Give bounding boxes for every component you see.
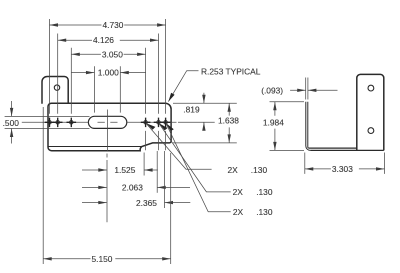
dimension 1.638 (173, 103, 237, 143)
side view end plate (357, 74, 384, 150)
leader 2X .130 (second) (159, 124, 231, 192)
dimension 3.050 (71, 48, 145, 150)
svg-text:.819: .819 (183, 105, 200, 115)
tab (rear flange seen behind web) (42, 77, 68, 104)
svg-text:.130: .130 (256, 207, 273, 217)
svg-text:.130: .130 (251, 165, 268, 175)
svg-text:4.730: 4.730 (103, 20, 124, 30)
svg-text:2X: 2X (228, 165, 239, 175)
dimension .819 (173, 93, 237, 130)
tab hole (54, 85, 59, 90)
plate hole bottom (368, 128, 374, 134)
svg-text:.130: .130 (256, 187, 273, 197)
slot (obround) (88, 116, 126, 128)
side view bottom flange (309, 148, 384, 150)
svg-text:2.365: 2.365 (136, 198, 157, 208)
dimension 2.063 (82, 151, 190, 193)
bend tangent line (front view bottom) (48, 146, 141, 148)
svg-text:R.253 TYPICAL: R.253 TYPICAL (201, 66, 261, 76)
hole center cross marks (45, 118, 171, 128)
svg-text:3.303: 3.303 (332, 164, 353, 174)
front view outline (web) (48, 103, 171, 151)
small hole right 1 (144, 121, 148, 125)
leader 2X .130 (first) (146, 124, 211, 170)
svg-text:1.000: 1.000 (98, 68, 119, 78)
side view web strip (306, 102, 311, 151)
svg-text:(.093): (.093) (261, 86, 283, 96)
svg-text:1.638: 1.638 (218, 115, 239, 125)
dimension 4.730 (50, 19, 166, 150)
dimension 5.150 (43, 107, 171, 264)
svg-text:2X: 2X (233, 187, 244, 197)
small hole right 2 (157, 121, 161, 125)
small hole right 3 (164, 121, 168, 125)
dimension 1.000 (72, 66, 146, 112)
svg-text:2X: 2X (233, 207, 244, 217)
dimension 2.365 (82, 151, 190, 208)
plate hole top (368, 85, 374, 91)
dimension 3.303 (305, 153, 385, 174)
leader 2X .130 (third) (166, 124, 231, 212)
horizontal centerline through holes (22, 121, 177, 123)
svg-text:2.063: 2.063 (122, 183, 143, 193)
dimension (.093) (290, 78, 337, 100)
leader R.253 TYPICAL (168, 71, 198, 102)
small hole left 3 (70, 121, 74, 125)
svg-text:.500: .500 (3, 118, 20, 128)
svg-text:3.050: 3.050 (102, 49, 123, 59)
svg-text:1.984: 1.984 (263, 118, 284, 128)
svg-text:5.150: 5.150 (92, 254, 113, 264)
small hole left 1 (48, 121, 52, 125)
dimension 1.525 (82, 153, 158, 176)
svg-text:4.126: 4.126 (93, 35, 114, 45)
dimension 1.984 (270, 102, 305, 151)
slot vertical centerline (106, 110, 108, 223)
dimension 4.126 (58, 34, 159, 151)
svg-text:1.525: 1.525 (114, 165, 135, 175)
small hole left 2 (56, 121, 60, 125)
dimension .500 (slot width) (5, 101, 90, 144)
